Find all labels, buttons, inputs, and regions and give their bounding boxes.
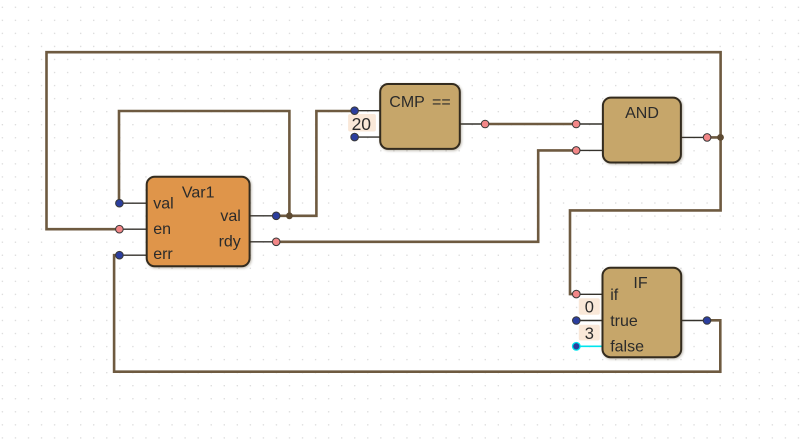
svg-text:val: val (153, 196, 173, 213)
svg-text:20: 20 (352, 114, 372, 134)
svg-text:false: false (610, 338, 644, 355)
svg-text:Var1: Var1 (182, 185, 215, 202)
svg-text:en: en (153, 221, 171, 238)
svg-text:rdy: rdy (219, 233, 241, 250)
svg-text:0: 0 (585, 299, 594, 317)
svg-text:err: err (153, 246, 173, 263)
svg-text:IF: IF (633, 275, 647, 292)
svg-text:val: val (220, 208, 240, 225)
svg-text:if: if (610, 287, 619, 304)
svg-text:CMP ==: CMP == (389, 94, 450, 111)
svg-text:3: 3 (585, 325, 594, 343)
svg-text:AND: AND (625, 105, 659, 122)
svg-text:true: true (610, 313, 638, 330)
